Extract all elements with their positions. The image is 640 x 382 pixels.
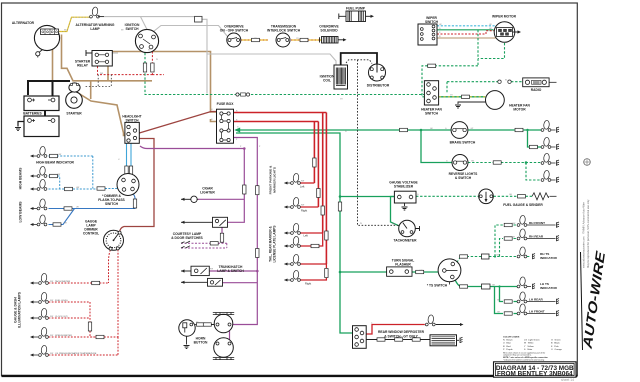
svg-text:GW: GW bbox=[512, 223, 515, 225]
svg-text:May be reproduced for personal: May be reproduced for personal, NON-comm… bbox=[586, 194, 590, 268]
svg-text:W White: W White bbox=[524, 342, 534, 345]
svg-text:* indicates the switches combi: * indicates the switches combined in one… bbox=[503, 358, 544, 361]
svg-text:FUEL PUMP: FUEL PUMP bbox=[346, 7, 366, 11]
svg-text:www.advanceautowire.com ©MM: www.advanceautowire.com ©MMIV Advance Au… bbox=[582, 195, 586, 268]
svg-text:SWITCH: SWITCH bbox=[125, 119, 139, 123]
svg-text:TACHOMETER: TACHOMETER bbox=[55, 280, 71, 283]
svg-text:LAMP: LAMP bbox=[90, 27, 100, 31]
svg-text:RELAY: RELAY bbox=[77, 64, 89, 68]
svg-text:ON - OFF SWITCH: ON - OFF SWITCH bbox=[220, 29, 249, 33]
svg-text:COLOR CODES: COLOR CODES bbox=[503, 337, 520, 339]
svg-text:U Blue: U Blue bbox=[503, 343, 512, 345]
svg-text:& DOOR SWITCHES: & DOOR SWITCHES bbox=[171, 236, 203, 240]
svg-text:LAMP & SWITCH: LAMP & SWITCH bbox=[217, 269, 244, 273]
svg-text:MOTOR: MOTOR bbox=[513, 108, 526, 112]
svg-text:Left: Left bbox=[300, 185, 305, 189]
svg-text:UW: UW bbox=[57, 174, 60, 176]
svg-text:K Pink: K Pink bbox=[551, 346, 559, 348]
svg-text:W: W bbox=[505, 80, 507, 82]
svg-text:UW: UW bbox=[58, 154, 61, 156]
svg-text:Right: Right bbox=[301, 209, 307, 213]
svg-text:W: W bbox=[360, 223, 362, 225]
svg-text:G Green: G Green bbox=[551, 338, 561, 341]
svg-text:INDICATOR: INDICATOR bbox=[540, 256, 558, 260]
svg-text:LICENSE PLATE LAMPS: LICENSE PLATE LAMPS bbox=[273, 226, 277, 263]
svg-text:RH FRONT: RH FRONT bbox=[529, 221, 545, 225]
svg-text:LGN: LGN bbox=[419, 270, 424, 272]
svg-text:sheet 14: sheet 14 bbox=[561, 378, 574, 382]
svg-text:REAR WINDOW DEFROSTER: REAR WINDOW DEFROSTER bbox=[378, 330, 425, 334]
svg-text:SWITCH: SWITCH bbox=[425, 20, 439, 24]
svg-text:N Brown: N Brown bbox=[503, 338, 513, 341]
svg-text:* TS SWITCH: * TS SWITCH bbox=[427, 284, 448, 288]
svg-text:OIL PRESSURE/WATER TEMPERATURE: OIL PRESSURE/WATER TEMPERATURE bbox=[55, 352, 97, 355]
svg-text:FUEL LEVEL: FUEL LEVEL bbox=[55, 300, 69, 302]
svg-text:RW: RW bbox=[50, 353, 53, 355]
svg-text:ILLUMINATION LAMPS: ILLUMINATION LAMPS bbox=[18, 291, 22, 328]
svg-text:RW: RW bbox=[50, 281, 53, 283]
svg-text:MARKER LIGHTS: MARKER LIGHTS bbox=[272, 167, 276, 193]
svg-text:LG Light Green: LG Light Green bbox=[524, 338, 540, 341]
svg-text:SWITCH: SWITCH bbox=[425, 112, 439, 116]
svg-text:HIGH BEAMS: HIGH BEAMS bbox=[19, 167, 23, 189]
svg-text:INDICATOR: INDICATOR bbox=[540, 286, 558, 290]
svg-text:O Orange: O Orange bbox=[551, 348, 563, 351]
svg-text:RW: RW bbox=[50, 335, 53, 337]
svg-text:UW: UW bbox=[76, 187, 79, 189]
svg-text:FROM BENTLEY 3NB064: FROM BENTLEY 3NB064 bbox=[497, 371, 573, 378]
svg-text:LH REAR: LH REAR bbox=[529, 298, 544, 302]
svg-text:COIL: COIL bbox=[323, 79, 331, 83]
svg-text:LIGHTER: LIGHTER bbox=[200, 191, 215, 195]
svg-text:RH REAR: RH REAR bbox=[529, 235, 544, 239]
svg-text:Right: Right bbox=[305, 282, 311, 286]
svg-text:LH FRONT: LH FRONT bbox=[529, 310, 545, 314]
svg-text:BUTTON: BUTTON bbox=[194, 341, 208, 345]
svg-text:STARTER: STARTER bbox=[66, 112, 82, 116]
svg-text:INTERLOCK SWITCH: INTERLOCK SWITCH bbox=[267, 29, 301, 33]
svg-text:RW: RW bbox=[50, 316, 53, 318]
svg-text:STABILIZER: STABILIZER bbox=[394, 185, 414, 189]
svg-text:S Slate: S Slate bbox=[524, 348, 533, 351]
svg-text:RADIO: RADIO bbox=[531, 88, 542, 92]
svg-text:SWITCH: SWITCH bbox=[105, 202, 119, 206]
svg-text:RW: RW bbox=[50, 300, 53, 302]
svg-text:SPEEDOMETER: SPEEDOMETER bbox=[55, 335, 72, 337]
svg-text:FLASHER: FLASHER bbox=[395, 263, 411, 267]
svg-text:PW: PW bbox=[210, 269, 213, 271]
svg-text:BATTERIES: BATTERIES bbox=[23, 112, 42, 116]
svg-text:ALTERNATOR: ALTERNATOR bbox=[12, 21, 35, 25]
svg-text:WIPER MOTOR: WIPER MOTOR bbox=[492, 15, 517, 19]
svg-text:CLOCK (GT): CLOCK (GT) bbox=[55, 316, 68, 318]
svg-text:Y Yellow: Y Yellow bbox=[524, 346, 534, 348]
svg-text:SOLENOID: SOLENOID bbox=[320, 29, 338, 33]
svg-text:HIGH BEAM INDICATOR: HIGH BEAM INDICATOR bbox=[36, 161, 74, 165]
svg-text:W: W bbox=[148, 50, 150, 52]
svg-text:DISTRIBUTOR: DISTRIBUTOR bbox=[367, 84, 390, 88]
svg-text:R Red: R Red bbox=[503, 346, 511, 348]
svg-text:SWITCH: SWITCH bbox=[125, 27, 139, 31]
svg-text:& SWITCH - GT ONLY: & SWITCH - GT ONLY bbox=[384, 335, 418, 339]
svg-text:RW: RW bbox=[301, 181, 304, 183]
svg-text:FUEL GAUGE & SENDER: FUEL GAUGE & SENDER bbox=[503, 203, 543, 207]
svg-text:LOW BEAMS: LOW BEAMS bbox=[19, 201, 23, 223]
svg-text:& SWITCH: & SWITCH bbox=[455, 176, 472, 180]
svg-text:B Black: B Black bbox=[551, 343, 561, 345]
svg-text:BRAKE SWITCH: BRAKE SWITCH bbox=[450, 141, 476, 145]
svg-text:RW: RW bbox=[301, 205, 304, 207]
svg-text:P Purple: P Purple bbox=[503, 348, 513, 351]
svg-text:TACHOMETER: TACHOMETER bbox=[393, 239, 417, 243]
svg-text:FUSE BOX: FUSE BOX bbox=[217, 102, 235, 106]
svg-text:W: W bbox=[156, 59, 158, 61]
svg-text:CONTROL: CONTROL bbox=[83, 232, 99, 236]
svg-text:Left: Left bbox=[304, 234, 309, 238]
svg-text:GW: GW bbox=[496, 254, 499, 256]
